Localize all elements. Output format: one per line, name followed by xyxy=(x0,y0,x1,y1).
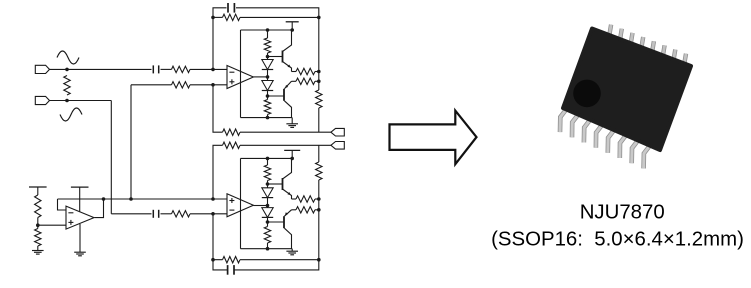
node output-R8 xyxy=(317,80,321,84)
wire R12 to U2 minus xyxy=(190,213,227,215)
wire IN2 to C2 xyxy=(111,213,151,215)
diode D4 xyxy=(267,206,269,208)
wire inner frame left (top block) xyxy=(240,30,242,118)
wire lower cap loop right xyxy=(234,260,319,270)
wire U2 output xyxy=(253,205,267,207)
diode D2 xyxy=(267,77,269,81)
resistor R13 (chain top, lower) xyxy=(267,158,269,165)
wire bottom rail (top block) xyxy=(241,117,293,119)
node U1 plus input xyxy=(211,83,215,87)
transistor Q3 (NPN) xyxy=(282,178,284,190)
node chain-base Q1 xyxy=(266,55,270,59)
supply bar V2 (lower block) xyxy=(284,149,300,151)
wire OUT2 right xyxy=(240,144,331,146)
wire R2 to U1 minus xyxy=(190,68,227,70)
IC pin-1 dimple xyxy=(573,80,601,108)
resistor R5 (chain top) xyxy=(267,30,269,38)
node U3 feedback xyxy=(102,197,106,201)
resistor R6 (chain bottom) xyxy=(267,96,269,100)
ground G4 (U3) xyxy=(79,224,81,252)
wire C1-R2 xyxy=(161,68,172,70)
node divider mid xyxy=(36,223,40,227)
resistor R9 (to OUT1) xyxy=(316,90,322,108)
resistor R2 xyxy=(172,66,191,72)
node rail-collector (lower) xyxy=(290,157,294,161)
resistor R16 (emitter Q4) xyxy=(296,207,315,213)
input terminal IN2 xyxy=(35,96,49,104)
node chain mid (lower) xyxy=(266,204,270,208)
wire U3 feedback xyxy=(95,199,104,218)
resistor R4 (feedback) xyxy=(223,14,241,20)
wire output node vertical (lower) xyxy=(318,199,320,260)
op-amp U3 xyxy=(66,206,94,229)
output terminal OUT2 xyxy=(331,142,344,150)
node res loop right xyxy=(317,16,321,20)
resistor R15 (emitter Q3) xyxy=(296,196,315,202)
node rail-collector xyxy=(290,28,294,32)
node A-line U2 plus xyxy=(211,197,215,201)
node rail-chain (lower) xyxy=(266,157,270,161)
wire OUT1 xyxy=(213,85,223,132)
wire U3 minus loop xyxy=(58,199,67,210)
output terminal OUT1 xyxy=(331,128,344,136)
svg-text:NJU7870: NJU7870 xyxy=(580,201,665,223)
node lower res loop right xyxy=(317,258,321,262)
wire cap loop to output node xyxy=(236,8,319,18)
supply bar V3 (divider) xyxy=(29,186,47,188)
node chain-base Q3 xyxy=(266,182,270,186)
svg-text:(SSOP16: 5.0×6.4×1.2mm): (SSOP16: 5.0×6.4×1.2mm) xyxy=(491,229,744,251)
input terminal IN1 xyxy=(35,65,49,73)
node chain mid xyxy=(266,75,270,79)
node U1 minus input xyxy=(211,68,215,72)
sine wave symbol (IN1) xyxy=(57,51,79,64)
node chain-base Q2 xyxy=(266,94,270,98)
diode D3 xyxy=(267,184,269,188)
IC body (SSOP16 package) xyxy=(563,29,691,151)
capacitor C4 (feedback lower) xyxy=(227,265,229,275)
node bottom-chain (lower) xyxy=(266,247,270,251)
IC top pins (8) xyxy=(609,25,611,37)
node res loop left xyxy=(211,16,215,20)
wire output node vertical (top) xyxy=(318,17,320,90)
resistor R19 (divider top) xyxy=(37,187,39,195)
node U2 minus input xyxy=(211,212,215,216)
node output-R16 xyxy=(317,208,321,212)
wire U1 plus from corner xyxy=(131,84,172,86)
resistor R8 (emitter Q2) xyxy=(296,78,315,84)
sine wave symbol (IN2) xyxy=(60,108,82,121)
ground G2 (lower block) xyxy=(291,249,293,252)
resistor R10 (feedback OUT1) xyxy=(223,129,241,135)
wire bottom rail (lower block) xyxy=(241,248,293,250)
capacitor C1 xyxy=(152,65,154,73)
wire OUT1 right xyxy=(240,131,331,133)
op-amp U1 xyxy=(227,66,253,89)
wire res loop left xyxy=(213,16,223,18)
node output-R15 xyxy=(317,197,321,201)
wire top rail xyxy=(241,29,293,31)
node rail-chain xyxy=(266,28,270,32)
resistor R1 (between inputs) xyxy=(64,76,70,96)
resistor R3 xyxy=(172,82,191,88)
wire inner frame left (lower block) xyxy=(240,158,242,248)
transistor Q2 (PNP) xyxy=(283,89,285,101)
block arrow xyxy=(390,111,477,165)
node bottom-chain xyxy=(266,116,270,120)
wire IN2 horizontal xyxy=(50,100,112,102)
node at A-line x131 xyxy=(129,197,133,201)
wire A-line (plus input bus) xyxy=(58,198,228,200)
supply bar V4 (U3) xyxy=(71,186,89,188)
resistor R18 (feedback lower) xyxy=(223,257,241,263)
resistor R17 (from OUT2) xyxy=(318,145,320,162)
wire R3 to U1 plus xyxy=(190,84,227,86)
resistor R11 (feedback OUT2) xyxy=(223,142,241,148)
node junction IN1 xyxy=(65,68,69,72)
transistor Q1 (NPN) xyxy=(282,51,284,63)
node lower res loop left xyxy=(211,258,215,262)
wire lower res loop right xyxy=(240,259,319,261)
resistor R14 (chain bottom, lower) xyxy=(267,222,269,227)
wire divider to U3 plus xyxy=(38,224,66,226)
capacitor C2 xyxy=(152,210,154,218)
wire lower rail xyxy=(241,157,293,159)
wire IN1 to node xyxy=(50,68,152,70)
wire feedback cap loop top xyxy=(213,8,227,70)
node chain-base Q4 xyxy=(266,220,270,224)
diode D1 xyxy=(267,57,269,60)
wire plus-node down to A-line xyxy=(130,85,132,199)
node junction IN2 xyxy=(65,99,69,103)
supply bar V1 (top block) xyxy=(286,21,299,23)
capacitor C3 (feedback) xyxy=(227,3,229,13)
IC bottom pins (8) xyxy=(560,109,567,133)
ground G3 (divider) xyxy=(32,250,44,252)
wire OUT2 left xyxy=(213,145,223,199)
wire lower cap loop left xyxy=(213,260,227,270)
wire U1 output xyxy=(253,76,267,78)
transistor Q4 (PNP) xyxy=(283,216,285,228)
resistor R7 (emitter Q1) xyxy=(296,68,315,74)
wire lower res loop left xyxy=(213,214,223,260)
wire IN2 down xyxy=(110,101,112,214)
wire res loop right xyxy=(240,16,319,18)
wire C2-R12 xyxy=(161,213,172,215)
ground G1 (top block) xyxy=(291,118,293,124)
node output-R7 xyxy=(317,70,321,74)
resistor R12 xyxy=(172,211,191,217)
op-amp U2 xyxy=(227,194,253,217)
resistor R20 (divider bottom) xyxy=(35,229,41,247)
